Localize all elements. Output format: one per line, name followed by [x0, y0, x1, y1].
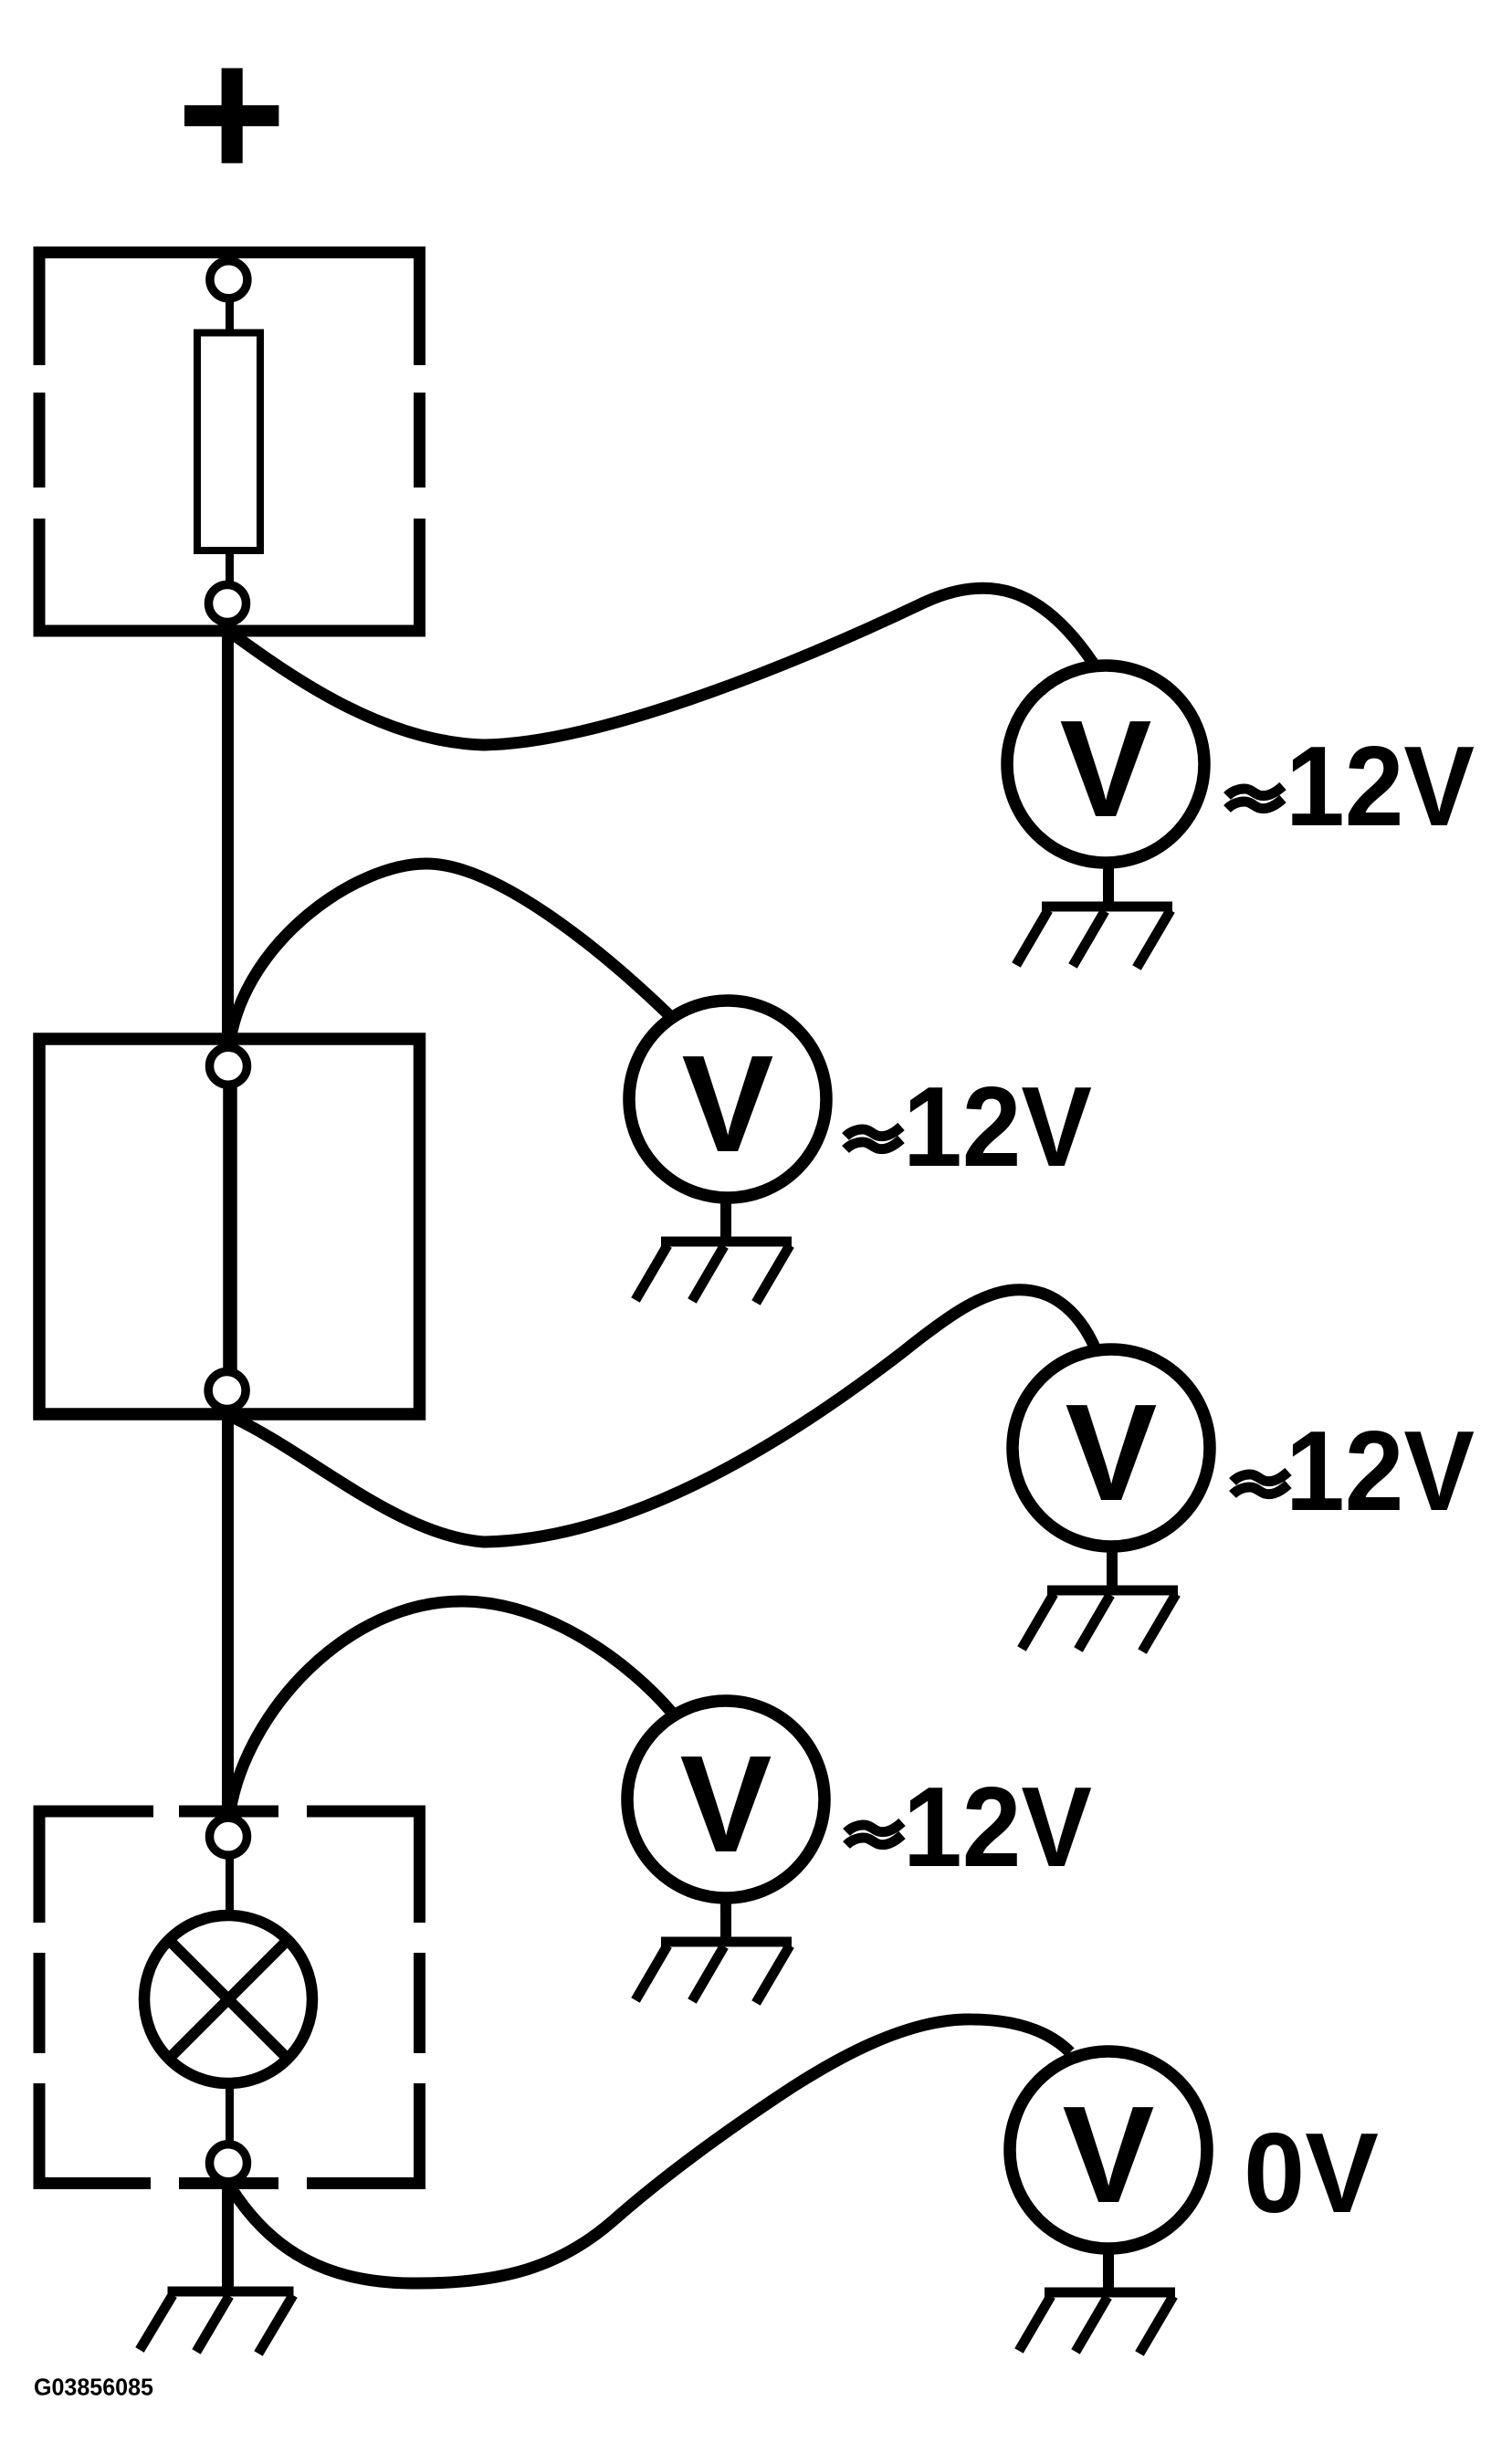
svg-text:V: V: [1063, 2077, 1155, 2231]
wire: test lead from lamp output node to voltmeter V5: [230, 2019, 1070, 2283]
lamp terminal circle (bottom): [210, 2144, 247, 2182]
fuse box (dashed component enclosure): [39, 253, 420, 632]
svg-text:V: V: [680, 1726, 772, 1881]
wire: lamp box to ground: [222, 2181, 234, 2293]
wire: switch box to lamp box: [222, 1411, 234, 1815]
wire: test lead from lamp input node to voltmeter V4: [230, 1601, 672, 1811]
voltmeter V1: [1007, 666, 1204, 903]
svg-text:12V: 12V: [903, 1064, 1092, 1190]
lamp box (dashed component enclosure): [39, 1811, 420, 2184]
voltmeter V4: [627, 1701, 824, 1938]
ground (voltmeter V5): [1019, 2292, 1175, 2354]
svg-text:12V: 12V: [1286, 1409, 1475, 1535]
lamp terminal circle (top): [210, 1818, 247, 1855]
label ~12V (V3): [1233, 1472, 1288, 1494]
ground (voltmeter V3): [1022, 1590, 1178, 1651]
wire: test lead from fuse output node to voltmeter V1: [228, 588, 1093, 745]
switch contact bar: [223, 1070, 237, 1386]
svg-text:G03856085: G03856085: [34, 2374, 153, 2401]
ground (voltmeter V2): [635, 1242, 792, 1303]
svg-text:0V: 0V: [1244, 2111, 1379, 2237]
ground (voltmeter V4): [635, 1942, 792, 2003]
switch box (solid component enclosure): [39, 1039, 420, 1414]
battery positive terminal +: [184, 68, 278, 163]
switch terminal circle (top): [210, 1047, 247, 1085]
wire: test lead from switch output node to voltmeter V3: [230, 1290, 1096, 1542]
svg-text:V: V: [682, 1026, 774, 1180]
wire: test lead from switch input node to voltmeter V2: [230, 864, 671, 1041]
ground (voltmeter V1): [1016, 907, 1172, 968]
ground (main circuit): [140, 2291, 294, 2354]
lamp stub wires: [226, 1855, 234, 1917]
label ~12V (V2): [845, 1127, 901, 1149]
svg-text:V: V: [1066, 1375, 1158, 1529]
label ~12V (V1): [1227, 786, 1283, 809]
fuse terminal circle (bottom): [209, 585, 247, 623]
lamp L1: [144, 1915, 312, 2083]
fuse terminal circle (top): [210, 261, 247, 299]
voltmeter V5: [1010, 2051, 1207, 2289]
fuse F1: [226, 296, 234, 336]
switch terminal circle (bottom): [208, 1372, 246, 1410]
svg-text:V: V: [1060, 691, 1152, 845]
wire: fuse box to switch box: [222, 628, 234, 1043]
svg-text:12V: 12V: [1286, 724, 1475, 850]
svg-text:12V: 12V: [903, 1765, 1092, 1891]
voltmeter V2: [629, 1001, 826, 1238]
label ~12V (V4): [846, 1822, 902, 1845]
voltmeter V3: [1013, 1349, 1210, 1587]
